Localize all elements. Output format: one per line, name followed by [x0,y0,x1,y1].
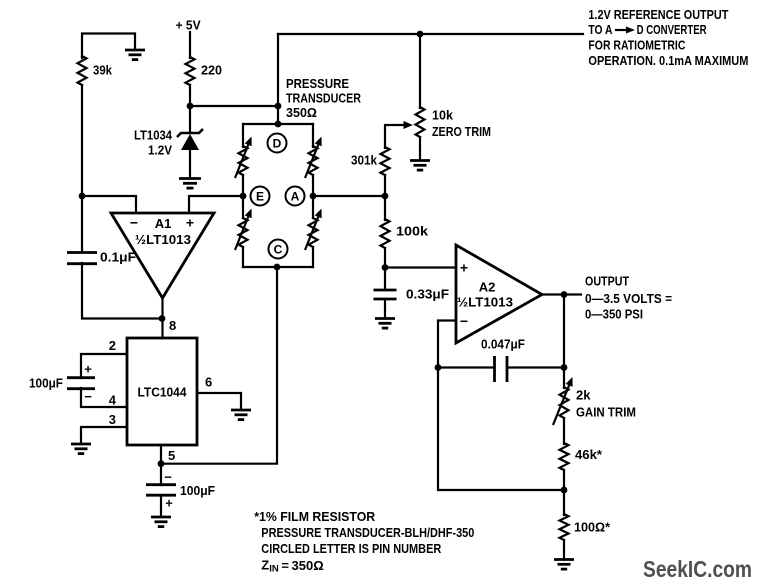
wiper arrow 10k [385,121,413,129]
svg-text:+: + [84,362,92,377]
wire 39k top to ground [82,34,135,59]
node feedback top-right junction [561,364,568,371]
label notes [254,509,474,574]
wire 5V to 220 [189,32,191,58]
svg-text:2k: 2k [576,388,591,403]
pin circle D [268,134,287,153]
svg-text:39k: 39k [93,63,113,78]
svg-text:0—3.5 VOLTS =: 0—3.5 VOLTS = [585,291,672,306]
wire 100ohm to ground [563,540,565,560]
pin circle C [269,240,288,259]
svg-text:1.2V REFERENCE OUTPUT: 1.2V REFERENCE OUTPUT [588,7,728,22]
svg-text:½LT1013: ½LT1013 [457,295,513,310]
svg-text:1.2V: 1.2V [148,143,172,158]
wire A2 output [542,293,581,295]
wire A1 output [161,297,163,338]
pin circle E [251,187,270,206]
node reference junction [417,31,424,38]
svg-text:*1% FILM RESISTOR: *1% FILM RESISTOR [254,509,376,524]
svg-text:3: 3 [109,412,116,427]
label output [585,274,672,322]
svg-text:FOR RATIOMETRIC: FOR RATIOMETRIC [588,38,685,53]
node A junction [310,193,317,200]
svg-text:+: + [165,496,173,511]
node C junction [274,264,281,271]
svg-text:5: 5 [168,448,175,463]
pin 8 label [169,318,176,333]
zener diode LT1034 1.2V [134,128,203,179]
label pressure transducer [286,76,362,120]
svg-text:TRANSDUCER: TRANSDUCER [286,91,362,106]
capacitor 0.33uF [374,287,450,302]
wire cap to ground [160,495,162,517]
svg-text:100μF: 100μF [29,376,63,391]
wire sum to 100k [384,196,386,220]
pin 4 wire [81,388,127,408]
capacitor 100uF pin2-4 [29,362,95,405]
resistor 100k [381,219,429,248]
wire A1 non-inverting input [189,196,243,212]
svg-text:A2: A2 [479,280,496,295]
wire 220 to node [189,85,191,107]
wire bridge bottom rail [243,266,313,268]
wire node to 100ohm [563,490,565,515]
node A1 output junction [159,315,166,322]
svg-text:CIRCLED LETTER IS PIN NUMBER: CIRCLED LETTER IS PIN NUMBER [261,541,442,556]
svg-text:ZERO TRIM: ZERO TRIM [432,124,491,139]
potentiometer 10k ZERO TRIM [416,107,492,139]
svg-text:46k*: 46k* [575,447,603,462]
svg-text:0.1μF: 0.1μF [100,250,136,265]
svg-text:−: − [164,470,172,485]
svg-text:D: D [273,137,282,151]
wire feedback loop [438,368,564,491]
node feedback bottom junction [561,487,568,494]
wire wiper to 301k [384,125,386,148]
svg-text:SeekIC.com: SeekIC.com [643,556,752,582]
pin 3 wire [81,412,127,444]
wire A1 inverting input [82,196,136,212]
node sum junction [382,193,389,200]
svg-text:OUTPUT: OUTPUT [585,274,629,289]
IC LTC1044 [127,338,197,445]
wire 46k to node [563,470,565,491]
pin 2 wire [81,338,127,378]
svg-text:4: 4 [109,393,117,408]
svg-text:0.33μF: 0.33μF [406,287,449,302]
svg-text:−: − [84,389,92,404]
supply +5V label [176,18,201,33]
svg-text:100k: 100k [396,224,429,239]
svg-text:½LT1013: ½LT1013 [135,232,191,247]
node 1.2V junction [187,103,194,110]
wire left rail upper [81,85,83,252]
wire node to bridge top feed [190,105,278,107]
wire bridge right upper [312,124,314,147]
node feedback top-left junction [435,364,442,371]
wire output down [563,295,565,389]
node E junction [240,193,247,200]
svg-text:+: + [460,260,468,276]
node pin 5 junction [158,460,165,467]
node bridge feed junction [275,103,282,110]
svg-text:GAIN TRIM: GAIN TRIM [576,405,636,420]
wire bridge top vertical [277,34,279,124]
svg-text:301k: 301k [351,153,378,168]
capacitor 0.047uF [438,337,564,383]
node A2 input junction [382,264,389,271]
svg-text:8: 8 [169,318,176,333]
svg-text:100Ω*: 100Ω* [574,520,611,535]
bridge resistor right-bottom [305,209,322,251]
ground top-left [125,50,145,60]
svg-text:0.047μF: 0.047μF [481,337,525,352]
svg-text:−: − [460,313,468,329]
resistor 46k [560,443,603,470]
bridge resistor right-top [305,137,322,179]
wire pot to ground [419,137,421,160]
svg-text:10k: 10k [432,108,454,123]
op-amp A2 1/2LT1013 [456,245,542,343]
wire A2 inverting input [438,321,456,370]
svg-text:6: 6 [205,375,212,390]
ground 100ohm [554,560,574,570]
pin circle A [286,187,305,206]
svg-text:100μF: 100μF [180,483,215,498]
node output junction [561,291,568,298]
svg-text:LT1034: LT1034 [134,128,173,143]
wire 2k to 46k [563,418,565,444]
wire bridge left upper [242,124,244,147]
wire pin5 to C column [161,267,277,464]
bridge resistor left-bottom [235,209,252,251]
svg-text:+ 5V: + 5V [176,18,201,33]
wire 1.2V reference rail [278,33,583,35]
svg-text:350Ω: 350Ω [286,105,317,120]
svg-text:A1: A1 [155,216,172,231]
capacitor 0.1uF [67,250,136,265]
resistor 301k [351,147,390,175]
node junction left rail [79,193,86,200]
wire 0.33uF to ground [384,299,386,318]
wire 100k to A2 node [384,248,386,268]
potentiometer 2k GAIN TRIM [553,377,636,425]
svg-text:A: A [291,190,300,204]
pin 5 wire [161,445,175,485]
pin 6 wire [197,375,241,411]
resistor 220 [186,57,223,85]
wire left rail lower [82,263,160,319]
wire bridge right mid [312,175,314,218]
logo SeekIC.com [643,556,752,582]
wire bridge top rail [243,123,313,125]
wire A node to sum node [313,195,385,197]
wire rail to pot [419,34,421,108]
svg-text:2: 2 [109,338,116,353]
resistor 39k [78,56,113,85]
svg-text:PRESSURE TRANSDUCER-BLH/DHF-35: PRESSURE TRANSDUCER-BLH/DHF-350 [261,525,474,540]
wire node to 0.33uF [384,268,386,291]
wire 301k to node [384,175,386,197]
svg-text:OPERATION. 0.1mA MAXIMUM: OPERATION. 0.1mA MAXIMUM [588,53,748,68]
ground pin 3 [71,444,91,454]
svg-text:TO A: TO A [588,22,612,37]
wire bridge left mid [242,175,244,218]
ground 10k pot [410,161,430,171]
svg-text:C: C [274,243,283,257]
svg-text:E: E [256,190,264,204]
capacitor 100uF pin5 [146,470,215,511]
wire bridge left lower [242,247,244,267]
ground pin 6 [231,410,251,420]
node D junction [275,121,282,128]
wire node to zener [189,106,191,133]
svg-text:D CONVERTER: D CONVERTER [637,22,707,37]
ground 0.33uF [375,319,395,329]
resistor 100ohm [560,514,611,540]
svg-text:220: 220 [201,63,222,78]
svg-text:LTC1044: LTC1044 [138,385,188,400]
svg-text:−: − [130,215,138,231]
wire bridge right lower [312,247,314,267]
wire to A2 non-inverting input [385,266,456,268]
ground 100uF [151,517,171,527]
op-amp A1 1/2LT1013 [111,213,214,298]
svg-text:0—350 PSI: 0—350 PSI [585,307,643,322]
svg-text:PRESSURE: PRESSURE [286,76,349,91]
svg-text:+: + [186,215,194,231]
label 1.2V reference output note [588,7,748,68]
ground zener [179,179,201,189]
bridge resistor left-top [235,137,252,179]
